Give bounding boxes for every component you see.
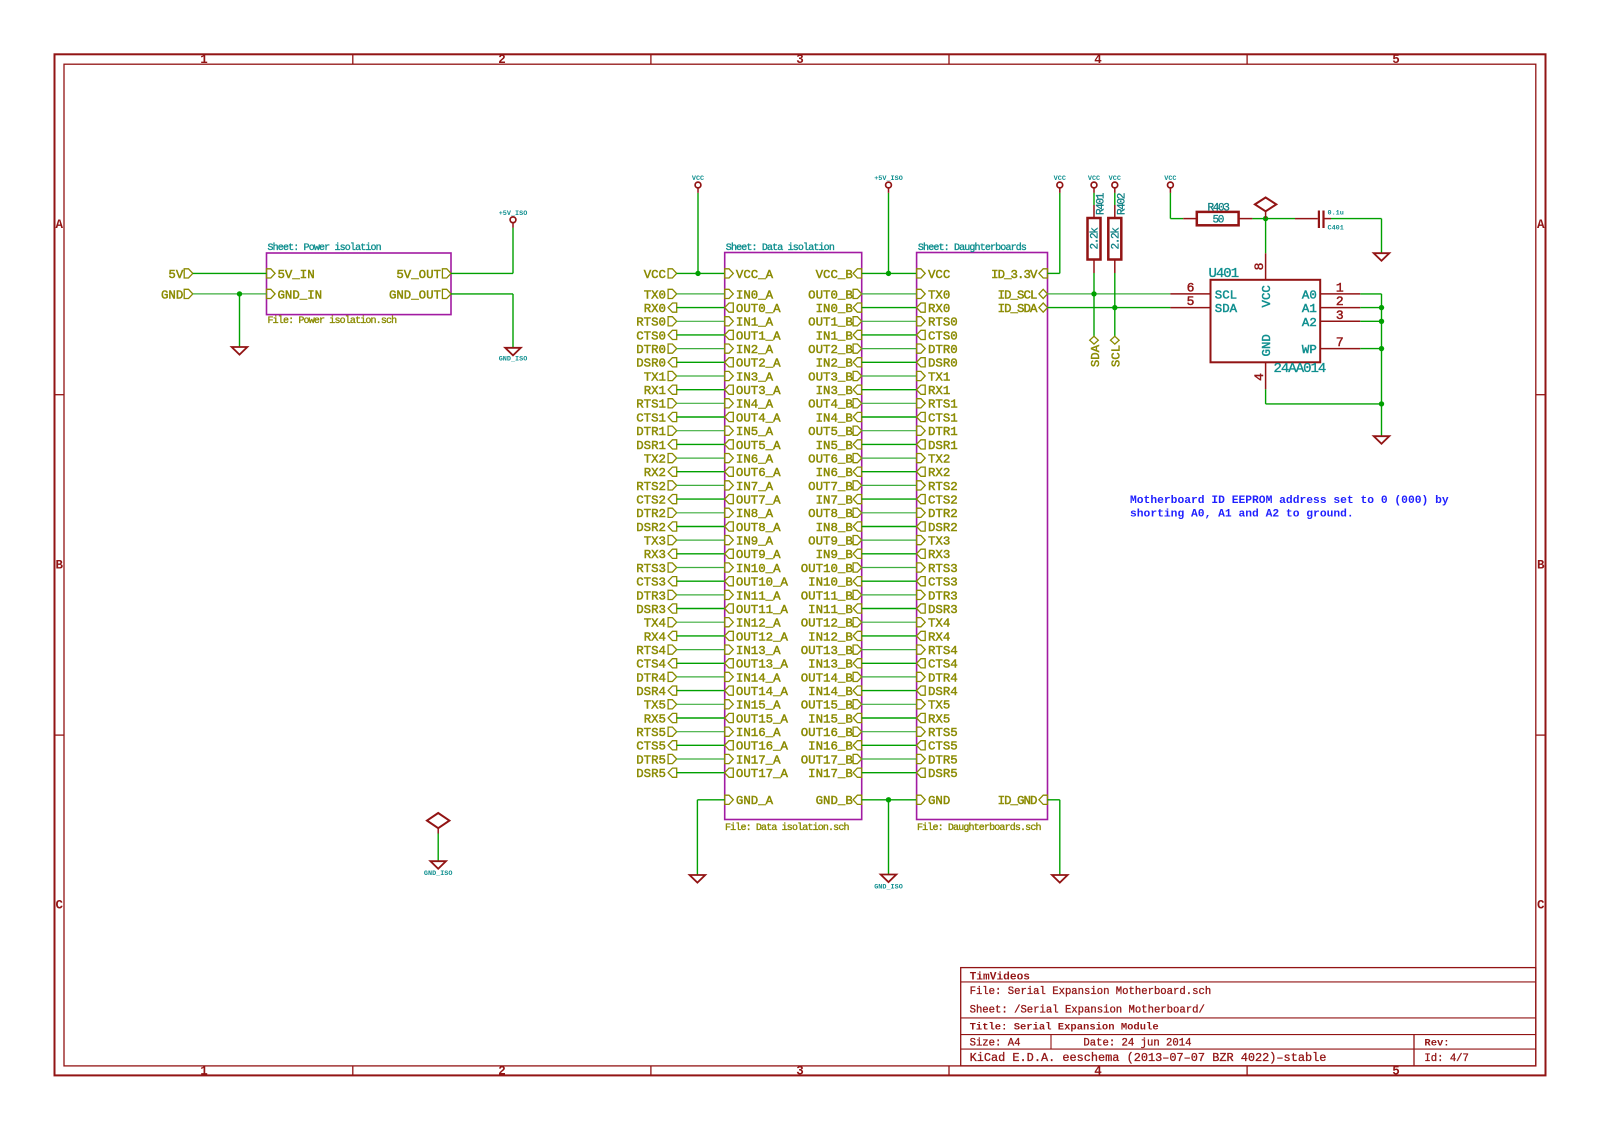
svg-text:TX0: TX0: [928, 288, 950, 302]
svg-text:GND: GND: [1260, 334, 1274, 356]
svg-text:IN6_B: IN6_B: [816, 466, 853, 480]
svg-text:C: C: [1537, 899, 1545, 913]
svg-text:OUT2_A: OUT2_A: [736, 357, 781, 371]
svg-text:IN8_A: IN8_A: [736, 507, 774, 521]
svg-text:DTR5: DTR5: [636, 753, 666, 767]
svg-text:OUT17_A: OUT17_A: [736, 767, 789, 781]
svg-text:IN8_B: IN8_B: [816, 521, 853, 535]
svg-text:RX2: RX2: [928, 466, 950, 480]
svg-text:5V: 5V: [168, 268, 183, 282]
svg-text:OUT0_B: OUT0_B: [808, 288, 853, 302]
svg-text:DSR4: DSR4: [928, 685, 958, 699]
svg-text:Sheet: /Serial Expansion Mothe: Sheet: /Serial Expansion Motherboard/: [970, 1005, 1205, 1017]
svg-text:Date: 24 jun 2014: Date: 24 jun 2014: [1083, 1038, 1191, 1050]
svg-text:GND_OUT: GND_OUT: [389, 288, 441, 302]
svg-text:DSR0: DSR0: [636, 357, 666, 371]
svg-text:IN9_A: IN9_A: [736, 535, 774, 549]
svg-text:File: Serial Expansion Motherb: File: Serial Expansion Motherboard.sch: [970, 986, 1212, 998]
svg-text:VCC: VCC: [928, 268, 950, 282]
svg-text:Motherboard ID EEPROM address: Motherboard ID EEPROM address set to 0 (…: [1130, 495, 1449, 507]
svg-text:A2: A2: [1302, 316, 1317, 330]
svg-text:OUT14_A: OUT14_A: [736, 685, 789, 699]
svg-text:4: 4: [1252, 373, 1267, 381]
svg-text:OUT14_B: OUT14_B: [801, 671, 853, 685]
svg-text:OUT8_B: OUT8_B: [808, 507, 853, 521]
svg-text:TX5: TX5: [928, 699, 950, 713]
svg-text:RTS4: RTS4: [636, 644, 666, 658]
svg-text:DTR0: DTR0: [636, 343, 666, 357]
svg-text:IN15_B: IN15_B: [808, 712, 853, 726]
svg-text:1: 1: [200, 53, 208, 67]
svg-text:5V_IN: 5V_IN: [278, 268, 315, 282]
svg-text:DTR4: DTR4: [928, 671, 958, 685]
svg-text:R402: R402: [1116, 193, 1128, 215]
svg-text:GND_IN: GND_IN: [278, 288, 323, 302]
svg-text:IN4_B: IN4_B: [816, 411, 853, 425]
svg-text:SCL: SCL: [1215, 289, 1237, 303]
svg-text:VCC_A: VCC_A: [736, 268, 774, 282]
svg-text:IN3_A: IN3_A: [736, 370, 774, 384]
svg-text:IN17_B: IN17_B: [808, 767, 853, 781]
svg-text:2.2k: 2.2k: [1110, 227, 1122, 250]
svg-text:TX3: TX3: [644, 535, 666, 549]
svg-text:TX3: TX3: [928, 535, 950, 549]
svg-text:3: 3: [796, 53, 804, 67]
svg-text:GND: GND: [161, 288, 183, 302]
svg-text:RTS2: RTS2: [636, 480, 666, 494]
svg-text:CTS4: CTS4: [636, 658, 666, 672]
svg-text:IN16_B: IN16_B: [808, 740, 853, 754]
svg-text:Sheet: Daughterboards: Sheet: Daughterboards: [918, 242, 1027, 254]
svg-text:ID_SDA: ID_SDA: [998, 302, 1038, 316]
svg-text:GND: GND: [928, 794, 950, 808]
svg-text:ID_SCL: ID_SCL: [998, 288, 1037, 302]
svg-text:Sheet: Power isolation: Sheet: Power isolation: [268, 242, 382, 254]
svg-text:IN11_A: IN11_A: [736, 589, 781, 603]
svg-text:RTS1: RTS1: [636, 398, 666, 412]
svg-text:IN3_B: IN3_B: [816, 384, 853, 398]
svg-text:KiCad E.D.A. eeschema (2013–0: KiCad E.D.A. eeschema (2013–07–07 BZR 40…: [970, 1051, 1327, 1065]
svg-text:R403: R403: [1207, 203, 1229, 215]
svg-text:TX2: TX2: [644, 453, 666, 467]
svg-text:R401: R401: [1096, 192, 1108, 215]
svg-text:CTS5: CTS5: [636, 740, 666, 754]
svg-text:IN5_A: IN5_A: [736, 425, 774, 439]
svg-text:OUT0_A: OUT0_A: [736, 302, 781, 316]
svg-text:OUT10_B: OUT10_B: [801, 562, 853, 576]
svg-text:A: A: [55, 218, 63, 232]
svg-text:DTR4: DTR4: [636, 671, 666, 685]
svg-text:IN2_A: IN2_A: [736, 343, 774, 357]
svg-text:IN0_A: IN0_A: [736, 288, 774, 302]
svg-text:IN12_A: IN12_A: [736, 617, 781, 631]
svg-text:IN0_B: IN0_B: [816, 302, 853, 316]
svg-text:RX4: RX4: [928, 630, 950, 644]
svg-text:GND_ISO: GND_ISO: [874, 884, 903, 892]
svg-text:IN7_A: IN7_A: [736, 480, 774, 494]
svg-text:TX1: TX1: [644, 370, 666, 384]
svg-text:DTR5: DTR5: [928, 753, 958, 767]
svg-text:2.2k: 2.2k: [1090, 227, 1102, 250]
svg-text:VCC: VCC: [1164, 175, 1176, 183]
svg-text:VCC: VCC: [1260, 285, 1274, 307]
svg-text:DTR0: DTR0: [928, 343, 958, 357]
svg-text:IN9_B: IN9_B: [816, 548, 853, 562]
svg-text:DTR3: DTR3: [636, 589, 666, 603]
svg-text:GND_ISO: GND_ISO: [499, 355, 528, 363]
svg-text:IN17_A: IN17_A: [736, 753, 781, 767]
svg-text:TX4: TX4: [928, 617, 950, 631]
svg-text:OUT3_B: OUT3_B: [808, 370, 853, 384]
svg-text:IN1_B: IN1_B: [816, 329, 853, 343]
svg-text:File: Data isolation.sch: File: Data isolation.sch: [725, 822, 849, 834]
svg-text:50: 50: [1212, 215, 1223, 227]
svg-text:C401: C401: [1328, 225, 1344, 233]
svg-text:IN7_B: IN7_B: [816, 494, 853, 508]
svg-text:Id: 4/7: Id: 4/7: [1424, 1053, 1469, 1065]
svg-text:VCC_B: VCC_B: [816, 268, 853, 282]
svg-text:0.1u: 0.1u: [1328, 210, 1344, 218]
svg-text:8: 8: [1252, 263, 1267, 271]
svg-text:ID_3.3V: ID_3.3V: [991, 268, 1038, 282]
svg-text:DTR2: DTR2: [928, 507, 958, 521]
svg-text:OUT9_A: OUT9_A: [736, 548, 781, 562]
svg-text:A1: A1: [1302, 302, 1317, 316]
svg-text:RTS5: RTS5: [636, 726, 666, 740]
svg-text:OUT4_B: OUT4_B: [808, 398, 853, 412]
svg-text:WP: WP: [1302, 343, 1317, 357]
svg-text:2: 2: [498, 1064, 506, 1078]
svg-text:RX1: RX1: [644, 384, 666, 398]
svg-text:RTS2: RTS2: [928, 480, 958, 494]
svg-text:IN4_A: IN4_A: [736, 398, 774, 412]
svg-text:RX2: RX2: [644, 466, 666, 480]
svg-text:OUT7_A: OUT7_A: [736, 494, 781, 508]
svg-text:RX3: RX3: [928, 548, 950, 562]
svg-text:RTS4: RTS4: [928, 644, 958, 658]
svg-text:OUT6_A: OUT6_A: [736, 466, 781, 480]
svg-text:Rev:: Rev:: [1424, 1037, 1449, 1049]
svg-text:OUT13_A: OUT13_A: [736, 658, 789, 672]
svg-text:24AA014: 24AA014: [1274, 361, 1326, 377]
svg-text:DSR2: DSR2: [928, 521, 958, 535]
svg-text:ID_GND: ID_GND: [998, 794, 1037, 808]
svg-text:OUT10_A: OUT10_A: [736, 576, 789, 590]
svg-text:RX1: RX1: [928, 384, 950, 398]
svg-text:5: 5: [1187, 294, 1195, 309]
svg-text:VCC: VCC: [1054, 175, 1066, 183]
svg-text:TX1: TX1: [928, 370, 950, 384]
svg-text:IN10_B: IN10_B: [808, 576, 853, 590]
svg-text:OUT15_B: OUT15_B: [801, 699, 853, 713]
svg-text:TX0: TX0: [644, 288, 666, 302]
svg-text:CTS3: CTS3: [636, 576, 666, 590]
svg-text:GND_B: GND_B: [816, 794, 853, 808]
svg-text:RX0: RX0: [928, 302, 950, 316]
svg-text:OUT1_A: OUT1_A: [736, 329, 781, 343]
svg-text:2: 2: [498, 53, 506, 67]
svg-text:IN1_A: IN1_A: [736, 316, 774, 330]
svg-text:OUT5_B: OUT5_B: [808, 425, 853, 439]
svg-text:OUT15_A: OUT15_A: [736, 712, 789, 726]
svg-text:+5V_ISO: +5V_ISO: [499, 210, 528, 218]
svg-text:A0: A0: [1302, 289, 1317, 303]
svg-text:OUT16_B: OUT16_B: [801, 726, 853, 740]
svg-text:shorting A0, A1 and A2 to grou: shorting A0, A1 and A2 to ground.: [1130, 509, 1354, 521]
svg-text:DSR0: DSR0: [928, 357, 958, 371]
svg-text:OUT5_A: OUT5_A: [736, 439, 781, 453]
svg-text:3: 3: [1336, 308, 1344, 323]
svg-text:IN15_A: IN15_A: [736, 699, 781, 713]
svg-text:CTS0: CTS0: [636, 329, 666, 343]
svg-text:OUT3_A: OUT3_A: [736, 384, 781, 398]
svg-text:OUT11_A: OUT11_A: [736, 603, 789, 617]
svg-text:DTR1: DTR1: [928, 425, 958, 439]
svg-text:TX4: TX4: [644, 617, 666, 631]
svg-text:4: 4: [1094, 53, 1102, 67]
svg-text:CTS0: CTS0: [928, 329, 958, 343]
svg-text:3: 3: [796, 1064, 804, 1078]
svg-text:IN12_B: IN12_B: [808, 630, 853, 644]
svg-text:TX2: TX2: [928, 453, 950, 467]
svg-text:RTS3: RTS3: [928, 562, 958, 576]
svg-text:Size: A4: Size: A4: [970, 1038, 1021, 1050]
svg-text:B: B: [55, 558, 63, 572]
svg-text:DSR5: DSR5: [928, 767, 958, 781]
svg-text:VCC: VCC: [1109, 175, 1121, 183]
svg-text:C: C: [55, 899, 63, 913]
svg-text:DSR5: DSR5: [636, 767, 666, 781]
svg-text:SCL: SCL: [1110, 345, 1124, 367]
svg-text:Title: Serial Expansion Module: Title: Serial Expansion Module: [970, 1022, 1159, 1034]
svg-text:U401: U401: [1209, 266, 1239, 282]
svg-text:CTS5: CTS5: [928, 740, 958, 754]
svg-text:1: 1: [200, 1064, 208, 1078]
svg-text:OUT7_B: OUT7_B: [808, 480, 853, 494]
svg-text:IN14_B: IN14_B: [808, 685, 853, 699]
svg-text:CTS1: CTS1: [636, 411, 666, 425]
svg-text:DSR1: DSR1: [928, 439, 958, 453]
svg-text:RTS0: RTS0: [928, 316, 958, 330]
svg-text:SDA: SDA: [1089, 344, 1103, 367]
svg-text:OUT2_B: OUT2_B: [808, 343, 853, 357]
svg-text:VCC: VCC: [644, 268, 666, 282]
svg-text:+5V_ISO: +5V_ISO: [874, 175, 903, 183]
svg-text:OUT16_A: OUT16_A: [736, 740, 789, 754]
svg-text:DTR3: DTR3: [928, 589, 958, 603]
svg-text:SDA: SDA: [1215, 302, 1238, 316]
svg-text:RX0: RX0: [644, 302, 666, 316]
svg-text:DSR1: DSR1: [636, 439, 666, 453]
svg-text:GND_ISO: GND_ISO: [424, 870, 453, 878]
svg-text:DTR2: DTR2: [636, 507, 666, 521]
svg-text:OUT17_B: OUT17_B: [801, 753, 853, 767]
svg-text:File: Daughterboards.sch: File: Daughterboards.sch: [917, 822, 1041, 834]
svg-text:OUT12_B: OUT12_B: [801, 617, 853, 631]
svg-text:CTS4: CTS4: [928, 658, 958, 672]
svg-text:OUT6_B: OUT6_B: [808, 453, 853, 467]
svg-text:RX4: RX4: [644, 630, 666, 644]
svg-text:RTS1: RTS1: [928, 398, 958, 412]
svg-text:OUT8_A: OUT8_A: [736, 521, 781, 535]
svg-text:OUT13_B: OUT13_B: [801, 644, 853, 658]
svg-text:CTS2: CTS2: [636, 494, 666, 508]
svg-text:RTS3: RTS3: [636, 562, 666, 576]
svg-text:VCC: VCC: [1088, 175, 1100, 183]
svg-text:RX3: RX3: [644, 548, 666, 562]
svg-text:OUT1_B: OUT1_B: [808, 316, 853, 330]
svg-text:RTS0: RTS0: [636, 316, 666, 330]
svg-text:DTR1: DTR1: [636, 425, 666, 439]
svg-text:OUT11_B: OUT11_B: [801, 589, 853, 603]
svg-text:OUT9_B: OUT9_B: [808, 535, 853, 549]
svg-text:CTS2: CTS2: [928, 494, 958, 508]
svg-text:DSR3: DSR3: [928, 603, 958, 617]
svg-text:IN13_B: IN13_B: [808, 658, 853, 672]
svg-text:GND_A: GND_A: [736, 794, 774, 808]
svg-text:IN6_A: IN6_A: [736, 453, 774, 467]
svg-text:DSR3: DSR3: [636, 603, 666, 617]
svg-text:OUT4_A: OUT4_A: [736, 411, 781, 425]
svg-text:IN11_B: IN11_B: [808, 603, 853, 617]
svg-text:CTS1: CTS1: [928, 411, 958, 425]
svg-text:CTS3: CTS3: [928, 576, 958, 590]
svg-text:IN5_B: IN5_B: [816, 439, 853, 453]
svg-text:IN2_B: IN2_B: [816, 357, 853, 371]
svg-text:B: B: [1537, 558, 1545, 572]
svg-text:RTS5: RTS5: [928, 726, 958, 740]
svg-text:IN13_A: IN13_A: [736, 644, 781, 658]
svg-text:OUT12_A: OUT12_A: [736, 630, 789, 644]
svg-text:RX5: RX5: [644, 712, 666, 726]
svg-text:TimVideos: TimVideos: [970, 972, 1031, 984]
svg-text:IN10_A: IN10_A: [736, 562, 781, 576]
svg-text:DSR4: DSR4: [636, 685, 666, 699]
svg-text:IN16_A: IN16_A: [736, 726, 781, 740]
svg-text:IN14_A: IN14_A: [736, 671, 781, 685]
svg-text:Sheet: Data isolation: Sheet: Data isolation: [726, 242, 835, 254]
svg-text:RX5: RX5: [928, 712, 950, 726]
svg-text:TX5: TX5: [644, 699, 666, 713]
svg-text:File: Power isolation.sch: File: Power isolation.sch: [268, 315, 398, 327]
svg-text:VCC: VCC: [692, 175, 704, 183]
svg-text:DSR2: DSR2: [636, 521, 666, 535]
svg-text:A: A: [1537, 218, 1545, 232]
svg-text:5: 5: [1392, 53, 1400, 67]
svg-text:7: 7: [1336, 335, 1344, 350]
svg-text:5V_OUT: 5V_OUT: [396, 268, 441, 282]
